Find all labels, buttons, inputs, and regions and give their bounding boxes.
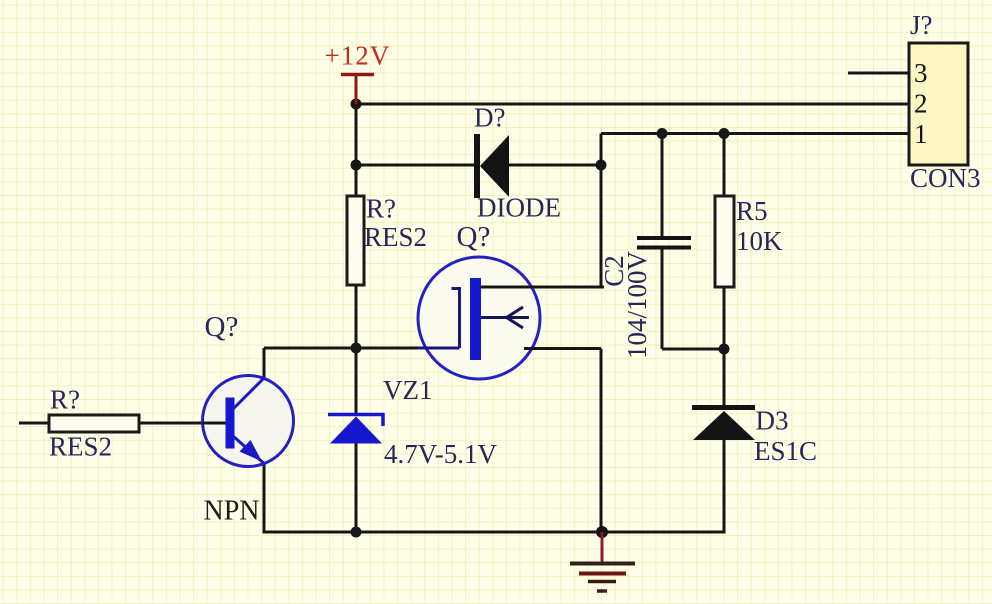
MOSFET source lead inside circle [524,347,601,350]
power +12V stub [355,75,358,105]
wire: NPN base lead from R? RES2 [139,422,227,425]
wire: R? bottom through gate node to zener cathode [355,285,358,414]
MOSFET source arrowhead [507,307,524,328]
transistor Q? NPN body circle [203,376,294,467]
wire: R5 bottom to D3 cathode [723,287,726,407]
wire: NPN emitter vertical [263,463,266,534]
junction at gate node [351,343,362,354]
junction at diode branch node [351,160,362,171]
resistor R5 body [715,196,734,287]
svg-text:ES1C: ES1C [754,436,817,466]
ground bar 1 [570,562,635,566]
svg-text:CON3: CON3 [910,163,981,193]
junction at ground symbol node [596,526,608,538]
svg-text:2: 2 [914,89,928,119]
svg-text:4.7V-5.1V: 4.7V-5.1V [384,439,498,469]
ground bar 4 [597,589,607,593]
wire: diode anode-side node to D? cathode [356,164,476,167]
wire: C2 bottom lead [661,247,664,349]
ground bar 2 [579,572,626,576]
resistor R? RES2 horizontal body (left) [49,415,139,432]
connector J? box [909,43,968,165]
svg-text:1: 1 [914,119,928,149]
svg-text:Q?: Q? [205,311,239,343]
svg-text:Q?: Q? [457,221,491,253]
svg-text:104/100V: 104/100V [622,250,652,359]
svg-text:RES2: RES2 [364,222,427,252]
transistor base bar [226,398,235,449]
MOSFET drain lead inside circle [478,286,604,289]
MOSFET channel bar [470,278,481,360]
junction at C2/R5 bottom node [719,344,730,355]
svg-text:NPN: NPN [204,496,260,527]
svg-text:RES2: RES2 [49,432,112,462]
wire: MOSFET source vertical to ground rail [600,349,603,533]
diode D? triangle [480,135,509,197]
MOSFET source arrow line [481,316,529,319]
svg-text:DIODE: DIODE [477,193,561,223]
svg-text:3: 3 [914,58,928,88]
svg-text:D?: D? [474,103,505,133]
junction at R5 top node [719,128,730,139]
capacitor C2 bottom plate [637,246,691,250]
svg-text:D3: D3 [756,406,789,436]
wire: gate node horizontal into MOSFET gate [264,347,460,350]
svg-text:+12V: +12V [325,41,391,71]
transistor base lead inside circle [202,422,227,425]
wire: C2 bottom to R5 bottom node [662,348,724,351]
wire: vertical from +12V node down to R? top [355,104,358,196]
svg-text:VZ1: VZ1 [383,375,433,405]
diode D3 triangle [693,411,755,440]
svg-text:10K: 10K [736,226,783,256]
svg-text:R?: R? [50,385,80,415]
transistor emitter arrowhead [240,440,263,462]
wire: bottom ground rail [264,531,726,534]
wire: node1 horizontal to pin1 [601,132,912,135]
resistor R? RES2 vertical body [347,196,364,285]
wire: D? anode to node at x601 [509,164,601,167]
wire: D3 anode down to ground rail corner [723,439,726,532]
junction at zener ground node [351,527,362,538]
junction at D? anode node [596,160,607,171]
wire: zener anode down to ground rail [355,443,358,532]
wire: +12V rail to pin2 [356,103,912,106]
diode D? cathode bar [474,134,480,198]
wire: MOSFET drain lead [481,286,603,289]
wire: R5 top lead [723,134,726,197]
svg-text:R?: R? [366,194,396,224]
capacitor C2 top plate [637,236,691,240]
MOSFET gate lead inside circle [418,347,460,350]
wire: MOSFET source lead horizontal [527,347,601,350]
ground bar 3 [588,580,616,584]
zener VZ1 triangle [330,417,382,444]
svg-text:J?: J? [910,10,933,40]
svg-text:R5: R5 [736,196,768,226]
wire: NPN collector vertical [263,348,266,378]
MOSFET Q? body circle [418,257,540,379]
zener VZ1 cathode bar [328,415,383,427]
MOSFET gate line [452,289,460,349]
transistor emitter stroke [233,436,264,463]
junction at +12V node [351,99,362,110]
wire: left stub into R? RES2 [19,422,49,425]
wire: C2 top lead [661,134,664,239]
wire: vertical x601 node1 down to MOSFET drain level [600,134,603,288]
transistor collector stroke [233,379,264,410]
power +12V bar [341,73,374,77]
ground stub [601,532,604,562]
diode D3 cathode bar [692,405,755,410]
wire: pin3 stub [848,72,912,75]
junction at C2 top node [657,128,668,139]
